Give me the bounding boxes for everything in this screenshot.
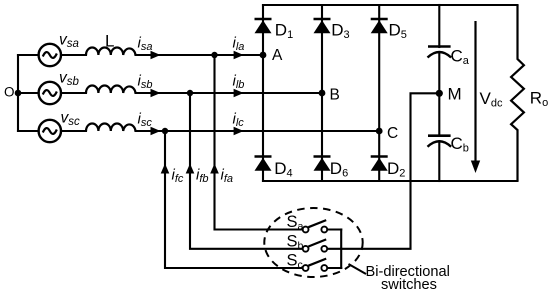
diode D2 [371,157,388,171]
svg-text:vsb: vsb [59,69,80,88]
capacitor Ca [428,47,452,58]
svg-text:ilc: ilc [233,111,245,130]
wire: Sa output to common bus [327,228,341,230]
junction dot: phase c tap [162,128,168,134]
AC source v_sb [39,82,61,104]
svg-text:ifb: ifb [196,167,209,186]
wire: inductor a to node A [136,54,264,56]
inductor phase b [86,85,136,93]
node O junction dot [15,90,22,97]
wire: node M to switch common bus [341,93,439,249]
voltage arrow Vdc [471,21,480,173]
wire: capacitor branch lower [438,141,440,181]
AC source v_sc [39,120,61,142]
svg-text:A: A [272,47,283,64]
wire: phase c tap down to switch Sc [165,131,303,268]
svg-text:O: O [4,85,15,100]
current arrow i_fc (up) [161,164,170,174]
svg-text:isb: isb [138,73,153,92]
wire: inductor c to node C [136,130,380,132]
svg-text:L: L [105,32,114,51]
wire: Sb output to common bus [327,248,341,250]
resistor Ro [511,5,524,181]
wire: source c to inductor [61,130,86,132]
svg-text:M: M [448,85,462,104]
svg-text:Sb: Sb [287,232,304,252]
svg-text:vsc: vsc [61,110,81,129]
diode D4 [255,157,272,171]
svg-text:vsa: vsa [59,31,79,50]
svg-text:D1: D1 [275,20,293,41]
node B dot [319,90,326,97]
svg-text:D2: D2 [387,159,405,180]
current arrow i_lc [234,127,244,136]
wire: left neutral bus [17,55,19,131]
svg-text:Sc: Sc [287,252,303,272]
svg-text:switches: switches [381,277,437,293]
wire: phase b neutral to source [18,92,39,94]
wire: switch common vertical bus [340,230,342,269]
wire: phase a neutral to source [18,54,39,56]
node C dot [376,128,383,135]
switch Sa [303,220,327,232]
switch Sb [303,239,327,251]
wire: capacitor branch upper [438,5,440,47]
AC source v_sa [39,44,61,66]
svg-text:D6: D6 [330,159,348,180]
current arrow i_sb [151,89,161,98]
diode D6 [314,157,331,171]
wire: D3/D6 bridge leg [321,5,323,181]
switch Sc [303,259,327,271]
wire: D5/D2 bridge leg [378,5,380,181]
wire: phase a tap down to switch Sa [215,55,303,230]
svg-text:D4: D4 [274,159,292,180]
current arrow i_sc [151,127,161,136]
svg-text:C: C [387,125,398,142]
svg-text:Vdc: Vdc [480,89,503,110]
inductor phase c [86,123,136,131]
svg-text:Sa: Sa [287,213,304,233]
svg-text:ila: ila [233,35,245,54]
wire: capacitor branch middle [438,52,440,136]
svg-text:Cb: Cb [451,134,469,155]
junction dot: phase b tap [187,90,193,96]
svg-text:ifa: ifa [221,167,234,186]
svg-text:D5: D5 [389,20,407,41]
leader line to label [349,264,367,274]
current arrow i_fb (up) [186,164,195,174]
wire: phase c neutral to source [18,130,39,132]
wire: bottom DC rail [263,180,518,182]
diode D3 [314,19,331,33]
wire: D1/D4 bridge leg [262,5,264,181]
svg-text:B: B [330,87,340,104]
node A dot [260,52,267,59]
wire: source a to inductor [61,54,86,56]
svg-text:isa: isa [138,35,153,54]
dashed ellipse: bi-directional switches group [264,208,362,277]
wire: source b to inductor [61,92,86,94]
diode D5 [371,19,388,33]
current arrow i_la [234,51,244,60]
wire: inductor b to node B [136,92,323,94]
node M dot [436,90,443,97]
capacitor Cb [428,136,452,147]
wire: top DC rail [263,4,518,6]
svg-text:ifc: ifc [172,167,184,186]
diode D1 [255,19,272,33]
current arrow i_fa (up) [210,164,219,174]
wire: Sc output to common bus [327,267,341,269]
current arrow i_lb [234,89,244,98]
svg-text:ilb: ilb [233,73,245,92]
inductor L phase a [86,47,136,55]
svg-text:D3: D3 [331,20,349,41]
svg-text:Ro: Ro [530,88,548,109]
svg-text:isc: isc [138,111,153,130]
current arrow i_sa [151,51,161,60]
wire: phase b tap down to switch Sb [190,93,303,249]
svg-text:Ca: Ca [451,47,470,68]
junction dot: phase a tap [211,52,217,58]
